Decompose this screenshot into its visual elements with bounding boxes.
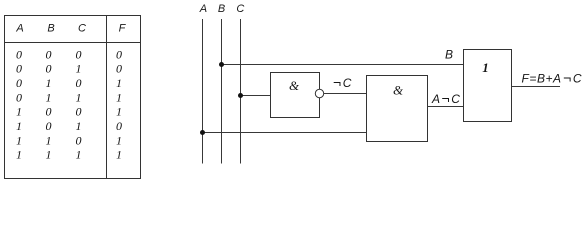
svg-text:1: 1: [116, 133, 122, 147]
wire: input rail A vertical: [202, 19, 204, 164]
node: junction on C rail: [238, 93, 243, 98]
svg-text:0: 0: [16, 47, 22, 61]
svg-text:1: 1: [46, 133, 52, 147]
svg-text:1: 1: [16, 105, 22, 119]
svg-text:1: 1: [76, 148, 82, 162]
svg-text:0: 0: [116, 47, 122, 61]
truth table row 3: 0 1 0 | 1: [16, 76, 122, 90]
NOT gate U1 body: [271, 73, 320, 118]
wire: input rail B vertical: [221, 19, 223, 164]
svg-text:C: C: [236, 3, 244, 15]
truth table outer border: [5, 16, 141, 179]
svg-text:C: C: [78, 23, 86, 35]
svg-text:0: 0: [76, 133, 82, 147]
truth table row 1: 0 0 0 | 0: [16, 47, 122, 61]
svg-text:0: 0: [46, 62, 52, 76]
svg-text:F=B+A¬C: F=B+A¬C: [522, 70, 583, 86]
svg-text:0: 0: [16, 90, 22, 104]
NOT gate U1 inversion bubble: [315, 89, 323, 97]
svg-text:1: 1: [116, 76, 122, 90]
svg-text:1: 1: [46, 76, 52, 90]
svg-text:1: 1: [16, 148, 22, 162]
svg-text:1: 1: [482, 60, 489, 75]
truth table row 5: 1 0 0 | 1: [16, 105, 122, 119]
svg-text:&: &: [289, 78, 300, 93]
svg-text:0: 0: [16, 62, 22, 76]
svg-text:0: 0: [46, 119, 52, 133]
svg-text:1: 1: [46, 90, 52, 104]
svg-text:1: 1: [16, 133, 22, 147]
AND gate U2 body: [367, 76, 428, 142]
svg-text:1: 1: [76, 62, 82, 76]
truth table row 6: 1 0 1 | 0: [16, 119, 122, 133]
svg-text:F: F: [119, 23, 127, 35]
truth table column separator: [106, 16, 108, 179]
OR gate U3 body: [464, 50, 512, 122]
svg-text:1: 1: [116, 90, 122, 104]
svg-text:A: A: [15, 23, 23, 35]
truth table row 8: 1 1 1 | 1: [16, 148, 122, 162]
svg-text:¬C: ¬C: [333, 74, 352, 90]
node: junction on B rail: [219, 62, 224, 67]
svg-text:1: 1: [76, 119, 82, 133]
svg-text:1: 1: [116, 148, 122, 162]
svg-text:0: 0: [76, 105, 82, 119]
wire: B rail to OR gate input: [222, 64, 464, 66]
svg-text:A¬C: A¬C: [431, 90, 460, 106]
wire: OR gate output F: [512, 86, 561, 88]
svg-text:1: 1: [46, 148, 52, 162]
svg-text:B: B: [218, 3, 225, 15]
svg-text:1: 1: [76, 90, 82, 104]
wire: input rail C vertical: [240, 19, 242, 164]
svg-text:0: 0: [116, 119, 122, 133]
truth table header separator line: [5, 42, 141, 44]
svg-text:&: &: [393, 83, 404, 98]
truth table row 7: 1 1 0 | 1: [16, 133, 122, 147]
svg-text:0: 0: [46, 47, 52, 61]
svg-text:0: 0: [76, 76, 82, 90]
truth table row 4: 0 1 1 | 1: [16, 90, 122, 104]
truth table row 2: 0 0 1 | 0: [16, 62, 122, 76]
svg-text:0: 0: [46, 105, 52, 119]
svg-text:A: A: [199, 3, 207, 15]
svg-text:0: 0: [76, 47, 82, 61]
svg-text:1: 1: [16, 119, 22, 133]
node: junction on A rail: [200, 130, 205, 135]
svg-text:B: B: [445, 48, 453, 62]
svg-text:B: B: [47, 23, 54, 35]
wire: C rail to NOT gate input: [241, 95, 271, 97]
wire: AND gate output: [428, 106, 464, 108]
wire: A rail to AND gate input: [203, 132, 367, 134]
svg-text:0: 0: [16, 76, 22, 90]
svg-text:1: 1: [116, 105, 122, 119]
svg-text:0: 0: [116, 62, 122, 76]
wire: NOT gate output to AND gate: [324, 93, 367, 95]
